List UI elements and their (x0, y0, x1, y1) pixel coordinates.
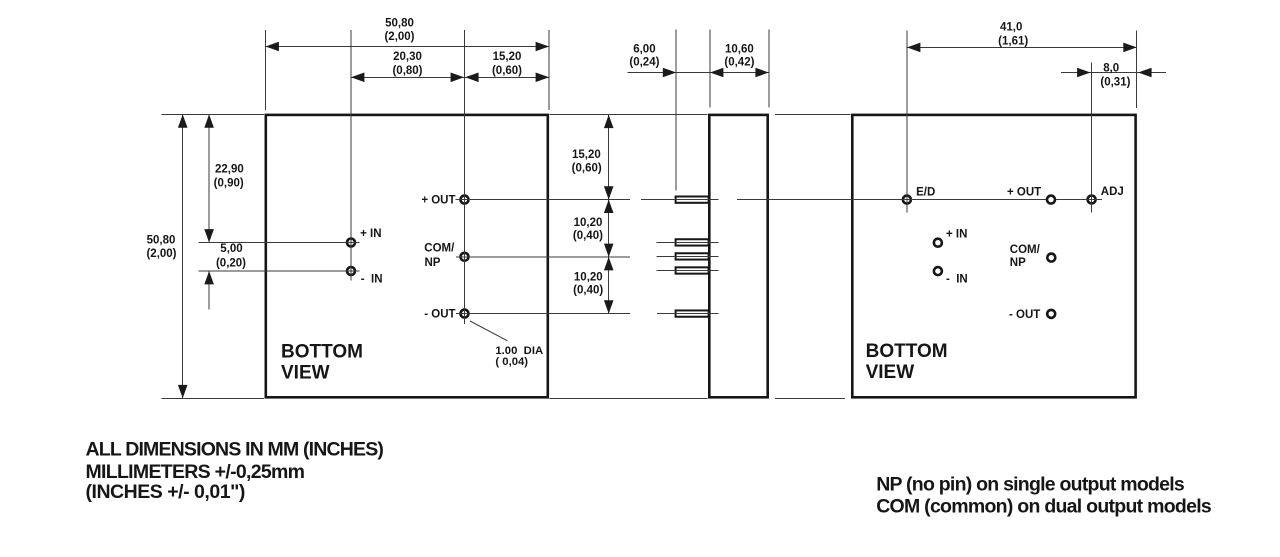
arrow 10,20 lower top (604, 257, 614, 270)
pin +OUT right (1047, 196, 1055, 204)
svg-text:BOTTOM: BOTTOM (281, 341, 363, 362)
svg-text:MILLIMETERS +/-0,25mm: MILLIMETERS +/-0,25mm (86, 461, 305, 483)
svg-text:ALL DIMENSIONS IN MM (INCHES): ALL DIMENSIONS IN MM (INCHES) (86, 439, 384, 461)
pin +IN right (934, 239, 942, 247)
svg-text:BOTTOM: BOTTOM (866, 341, 948, 362)
wire row COM/NP (465, 256, 631, 258)
svg-text:COM (common) on dual output mo: COM (common) on dual output models (876, 496, 1212, 518)
bottom extension line left segment (162, 397, 265, 399)
svg-text:50,80: 50,80 (385, 18, 414, 30)
vertical construction line through ADJ pin (1091, 63, 1093, 213)
vertical extension line at side view left edge (709, 30, 711, 108)
arrow 22,90 top (204, 114, 214, 127)
bottom extension line right segment (775, 397, 845, 399)
pin +OUT left (461, 196, 469, 204)
pin centerline -OUT row (657, 313, 719, 315)
pin ADJ (1088, 196, 1096, 204)
wire row +OUT to dimension (465, 199, 631, 201)
svg-text:+ OUT: + OUT (421, 195, 455, 207)
dimension line 6,00 span (676, 72, 710, 74)
top extension line left segment (162, 114, 265, 116)
dimension line 10,60 (710, 72, 769, 74)
svg-text:NP: NP (1010, 257, 1026, 269)
arrow 6,00 (663, 68, 676, 78)
wire row +OUT pin centerline (641, 199, 719, 201)
top extension line middle segment (550, 114, 708, 116)
dimension line 8,0 left tail (1061, 72, 1091, 74)
arrow 8,0 left (1077, 68, 1090, 78)
svg-text:VIEW: VIEW (866, 362, 915, 383)
crosshair -OUT left (456, 313, 473, 315)
label dash -OUT (456, 313, 460, 315)
pin -IN right (934, 267, 942, 275)
arrow 50,80 left (266, 42, 279, 52)
wire row +IN (199, 242, 360, 244)
svg-text:(0,60): (0,60) (492, 65, 522, 77)
view titles (281, 341, 948, 383)
pin labels (360, 186, 1124, 321)
leader line 1.00 DIA (470, 321, 508, 341)
middle module outline (side view) (709, 115, 767, 397)
svg-text:( 0,04): ( 0,04) (495, 356, 528, 368)
arrow 10,20 upper bottom (604, 244, 614, 257)
label dash COM/NP (456, 256, 460, 258)
svg-text:(0,40): (0,40) (573, 230, 603, 242)
arrow 41,0 right (1123, 43, 1136, 53)
side-view pin rectangles (676, 197, 709, 317)
left module outline (bottom view) (266, 115, 1136, 397)
svg-text:15,20: 15,20 (572, 149, 601, 161)
arrow 15,20 right (536, 73, 549, 83)
vertical construction line through E/D pin (906, 30, 908, 212)
svg-text:6,00: 6,00 (633, 44, 655, 56)
svg-text:15,20: 15,20 (493, 51, 522, 63)
svg-text:5,00: 5,00 (220, 243, 242, 255)
svg-text:(0,90): (0,90) (214, 178, 244, 190)
arrow 10,60 left (710, 68, 723, 78)
pin centerline cluster middle (657, 255, 719, 257)
svg-text:(2,00): (2,00) (384, 31, 414, 43)
wire row -OUT (465, 313, 631, 315)
svg-text:10,20: 10,20 (574, 272, 603, 284)
arrow 15,20 mid bottom (604, 186, 614, 199)
svg-text:50,80: 50,80 (147, 235, 176, 247)
pin circles (347, 196, 1096, 318)
svg-text:NP: NP (425, 257, 441, 269)
vertical extension line at pin tips of side view (675, 30, 677, 191)
pin centerline cluster bottom (657, 270, 719, 272)
svg-text:22,90: 22,90 (215, 164, 244, 176)
svg-text:(INCHES +/- 0,01"): (INCHES +/- 0,01") (86, 481, 245, 503)
arrow 15,20 left (465, 73, 478, 83)
thin construction and dimension lines (162, 30, 1167, 399)
svg-text:(0,24): (0,24) (629, 56, 659, 68)
crosshair -IN left (343, 270, 360, 272)
arrow 5,00 up (204, 271, 214, 284)
svg-text:(0,40): (0,40) (573, 285, 603, 297)
top extension line right segment (775, 114, 851, 116)
arrow 10,20 lower bottom (604, 300, 614, 313)
svg-text:- IN: - IN (946, 274, 968, 286)
pin -IN left (347, 267, 355, 275)
pin -OUT right (1047, 310, 1055, 318)
svg-text:+ IN: + IN (360, 228, 381, 240)
svg-text:NP (no pin) on single output m: NP (no pin) on single output models (876, 474, 1185, 496)
svg-text:COM/: COM/ (1010, 244, 1041, 256)
arrow 20,30 left (351, 73, 364, 83)
svg-text:10,20: 10,20 (574, 217, 603, 229)
svg-text:+ OUT: + OUT (1007, 186, 1041, 198)
svg-text:(0,60): (0,60) (572, 162, 602, 174)
arrow 50,80 vert top (178, 114, 188, 127)
svg-text:8,0: 8,0 (1103, 62, 1119, 74)
vertical extension line at left module left edge (265, 30, 267, 110)
arrow 10,60 right (755, 68, 768, 78)
crosshair overlays (343, 191, 1101, 322)
vertical construction line through +IN/-IN pins (350, 30, 352, 281)
pin +IN left (347, 239, 355, 247)
crosshair ADJ (1083, 199, 1100, 201)
dimension line 6,00 tail (628, 72, 677, 74)
arrow 20,30 right (451, 73, 464, 83)
dimension line 50,80 top (266, 46, 550, 48)
crosshair +IN left (343, 242, 360, 244)
arrow 10,20 upper top (604, 200, 614, 213)
vertical extension line at right module right edge (1136, 30, 1138, 108)
svg-text:ADJ: ADJ (1101, 186, 1124, 198)
pin -OUT left (461, 310, 469, 318)
svg-text:(2,00): (2,00) (146, 248, 176, 260)
dimension line 8,0 span (1091, 72, 1139, 74)
svg-text:- OUT: - OUT (424, 309, 455, 321)
vertical extension line at side view right edge (768, 30, 770, 108)
svg-text:41,0: 41,0 (1000, 21, 1022, 33)
svg-text:COM/: COM/ (424, 243, 455, 255)
svg-text:+ IN: + IN (946, 228, 967, 240)
right module outline (bottom view) (852, 115, 1135, 397)
crosshair COM left (456, 256, 473, 258)
arrow 50,80 right (536, 42, 549, 52)
dimension line 50,80 vertical (182, 114, 184, 398)
arrow 15,20 mid top (604, 115, 614, 128)
svg-text:- OUT: - OUT (1009, 309, 1040, 321)
pin E/D (903, 196, 911, 204)
wire row E/D to ADJ (737, 199, 1102, 201)
pin COM/NP right (1047, 254, 1055, 262)
pin centerline cluster top (657, 241, 719, 243)
svg-text:20,30: 20,30 (393, 51, 422, 63)
vertical extension line at left module right edge (548, 30, 550, 110)
label dash +OUT (456, 199, 460, 201)
arrowheads (178, 42, 1152, 399)
wire row -IN (199, 270, 360, 272)
vertical construction line through OUT/COM pins (464, 30, 466, 324)
svg-text:(0,42): (0,42) (724, 56, 754, 68)
dimension line 22,90 vertical (208, 114, 210, 242)
arrow 41,0 left (907, 43, 920, 53)
bottom extension line middle segment (550, 397, 708, 399)
arrow 50,80 vert bottom (178, 385, 188, 398)
svg-text:- IN: - IN (361, 273, 383, 285)
dimension texts (146, 18, 1130, 369)
svg-text:(0,80): (0,80) (392, 65, 422, 77)
svg-text:(0,31): (0,31) (1100, 76, 1130, 88)
notes (86, 439, 1212, 518)
svg-text:(0,20): (0,20) (216, 258, 246, 270)
dimension line 20,30 (351, 76, 464, 78)
dimension line 15,20/10,20 vertical (608, 115, 610, 314)
dimension line 41,0 (907, 46, 1137, 48)
dimension line 5,00 lower tail (208, 271, 210, 310)
dimension line 8,0 right tail (1138, 72, 1166, 74)
pin COM/NP left (461, 253, 469, 261)
svg-text:VIEW: VIEW (281, 362, 330, 383)
crosshair E/D (898, 199, 915, 201)
svg-text:E/D: E/D (916, 186, 935, 198)
svg-text:(1,61): (1,61) (998, 36, 1028, 48)
arrow 22,90 bottom (204, 229, 214, 242)
svg-text:10,60: 10,60 (725, 44, 754, 56)
dimension line 15,20 top (465, 76, 549, 78)
arrow 8,0 right (1138, 68, 1151, 78)
crosshair +OUT left (456, 199, 473, 201)
